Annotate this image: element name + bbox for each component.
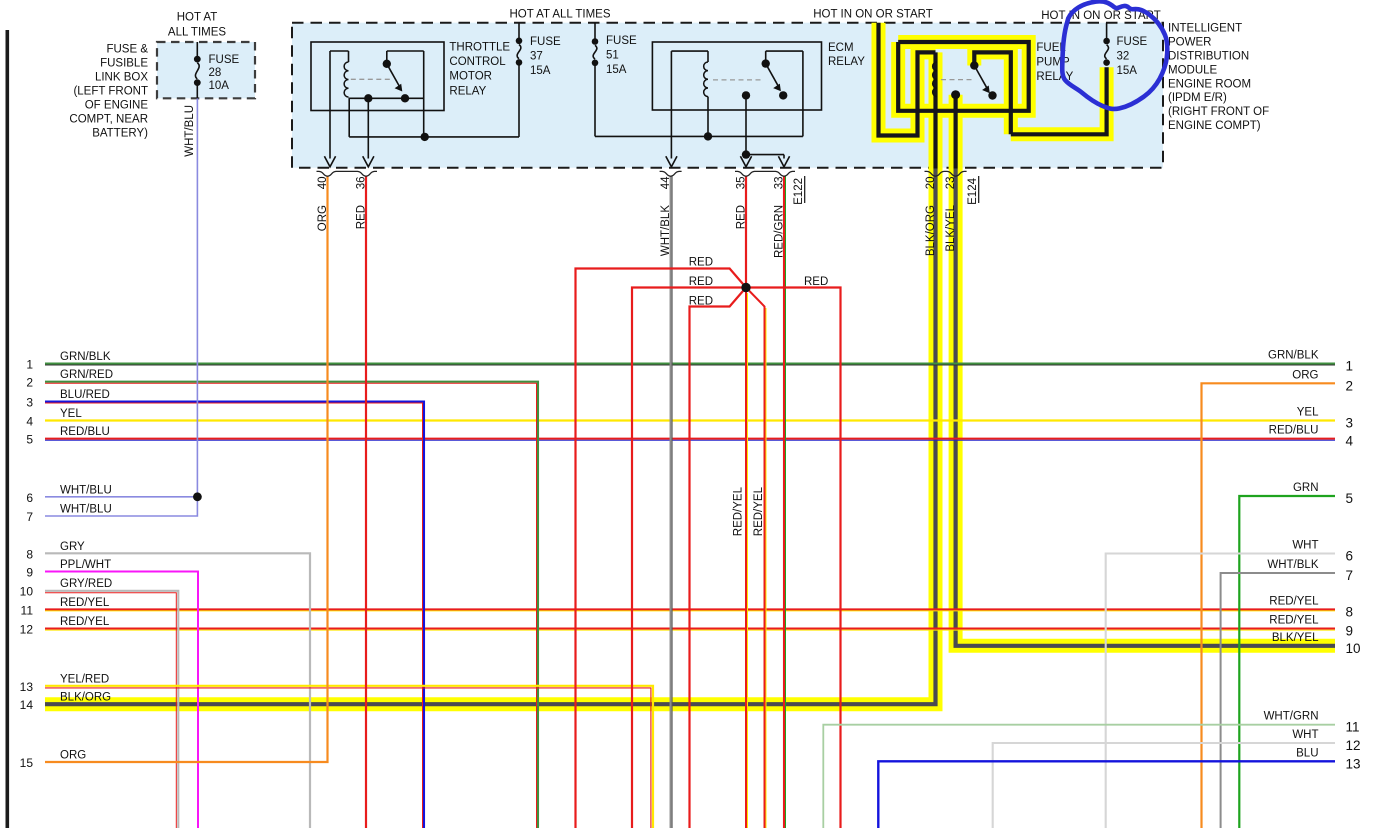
svg-text:RELAY: RELAY bbox=[828, 56, 865, 68]
svg-text:GRN/BLK: GRN/BLK bbox=[60, 351, 111, 363]
svg-text:40: 40 bbox=[317, 177, 329, 190]
svg-text:13: 13 bbox=[1346, 756, 1361, 771]
svg-text:(IPDM E/R): (IPDM E/R) bbox=[1168, 92, 1227, 104]
svg-text:BLK/ORG: BLK/ORG bbox=[60, 692, 111, 704]
svg-text:LINK BOX: LINK BOX bbox=[95, 71, 148, 83]
svg-text:RED: RED bbox=[689, 295, 713, 307]
svg-text:WHT: WHT bbox=[1292, 729, 1318, 741]
svg-text:RED/YEL: RED/YEL bbox=[1269, 615, 1319, 627]
svg-text:BLU/RED: BLU/RED bbox=[60, 389, 110, 401]
svg-text:RED: RED bbox=[804, 276, 828, 288]
svg-text:GRN: GRN bbox=[1293, 482, 1319, 494]
svg-text:3: 3 bbox=[1346, 416, 1354, 431]
svg-text:RED/YEL: RED/YEL bbox=[1269, 595, 1319, 607]
svg-text:RED/BLU: RED/BLU bbox=[60, 426, 110, 438]
svg-text:FUSIBLE: FUSIBLE bbox=[100, 57, 148, 69]
svg-text:DISTRIBUTION: DISTRIBUTION bbox=[1168, 51, 1249, 63]
svg-text:15A: 15A bbox=[606, 64, 627, 76]
svg-text:BLK/ORG: BLK/ORG bbox=[925, 205, 937, 256]
svg-text:ENGINE ROOM: ENGINE ROOM bbox=[1168, 78, 1251, 90]
svg-text:6: 6 bbox=[1346, 549, 1354, 564]
svg-text:11: 11 bbox=[1346, 720, 1360, 735]
svg-text:BATTERY): BATTERY) bbox=[92, 127, 148, 139]
svg-text:OF ENGINE: OF ENGINE bbox=[85, 99, 149, 111]
svg-text:E122: E122 bbox=[793, 178, 805, 205]
svg-text:BLK/YEL: BLK/YEL bbox=[945, 204, 957, 251]
svg-text:HOT IN ON OR START: HOT IN ON OR START bbox=[813, 9, 932, 21]
svg-text:15A: 15A bbox=[1117, 65, 1138, 77]
svg-text:ORG: ORG bbox=[317, 205, 329, 231]
svg-text:35: 35 bbox=[736, 177, 748, 190]
svg-text:PUMP: PUMP bbox=[1036, 57, 1070, 69]
svg-text:7: 7 bbox=[26, 510, 33, 524]
svg-text:ORG: ORG bbox=[60, 750, 86, 762]
svg-text:WHT/BLK: WHT/BLK bbox=[660, 205, 672, 256]
svg-text:36: 36 bbox=[356, 177, 368, 190]
svg-text:YEL: YEL bbox=[60, 408, 82, 420]
svg-text:32: 32 bbox=[1117, 51, 1130, 63]
svg-text:POWER: POWER bbox=[1168, 37, 1211, 49]
svg-text:WHT/BLU: WHT/BLU bbox=[60, 484, 112, 496]
svg-text:15: 15 bbox=[20, 756, 34, 770]
svg-text:20: 20 bbox=[925, 177, 937, 190]
svg-text:37: 37 bbox=[530, 51, 543, 63]
svg-text:51: 51 bbox=[606, 50, 619, 62]
svg-text:YEL/RED: YEL/RED bbox=[60, 673, 109, 685]
svg-text:ORG: ORG bbox=[1292, 369, 1318, 381]
svg-text:MODULE: MODULE bbox=[1168, 64, 1218, 76]
svg-text:14: 14 bbox=[20, 698, 34, 712]
svg-text:4: 4 bbox=[1346, 434, 1354, 449]
svg-text:4: 4 bbox=[26, 415, 33, 429]
svg-text:RED: RED bbox=[689, 276, 713, 288]
svg-text:5: 5 bbox=[26, 433, 33, 447]
svg-text:BLK/YEL: BLK/YEL bbox=[1272, 632, 1319, 644]
svg-text:CONTROL: CONTROL bbox=[449, 56, 506, 68]
svg-text:15A: 15A bbox=[530, 65, 551, 77]
svg-text:HOT AT ALL TIMES: HOT AT ALL TIMES bbox=[510, 9, 611, 21]
svg-text:FUSE: FUSE bbox=[530, 36, 561, 48]
svg-text:13: 13 bbox=[20, 680, 34, 694]
svg-text:9: 9 bbox=[1346, 624, 1354, 639]
svg-text:FUSE: FUSE bbox=[1117, 36, 1148, 48]
svg-text:ECM: ECM bbox=[828, 42, 854, 54]
svg-text:RED/YEL: RED/YEL bbox=[60, 597, 110, 609]
svg-text:GRN/BLK: GRN/BLK bbox=[1268, 350, 1319, 362]
svg-text:11: 11 bbox=[21, 603, 34, 617]
svg-text:10A: 10A bbox=[209, 80, 230, 92]
svg-text:6: 6 bbox=[26, 491, 33, 505]
svg-text:BLU: BLU bbox=[1296, 747, 1318, 759]
svg-text:WHT: WHT bbox=[1292, 540, 1318, 552]
svg-text:12: 12 bbox=[20, 623, 34, 637]
svg-text:YEL: YEL bbox=[1297, 407, 1319, 419]
svg-text:RED/YEL: RED/YEL bbox=[753, 486, 765, 536]
svg-text:MOTOR: MOTOR bbox=[449, 71, 492, 83]
svg-text:FUSE: FUSE bbox=[209, 54, 240, 66]
svg-text:GRY: GRY bbox=[60, 541, 85, 553]
svg-text:5: 5 bbox=[1346, 491, 1354, 506]
svg-text:33: 33 bbox=[774, 177, 786, 190]
svg-text:44: 44 bbox=[660, 176, 672, 189]
svg-text:9: 9 bbox=[26, 566, 33, 580]
svg-text:GRY/RED: GRY/RED bbox=[60, 578, 112, 590]
svg-text:PPL/WHT: PPL/WHT bbox=[60, 559, 111, 571]
svg-text:HOT AT: HOT AT bbox=[177, 12, 217, 24]
svg-text:12: 12 bbox=[1346, 738, 1361, 753]
svg-text:WHT/BLK: WHT/BLK bbox=[1267, 559, 1318, 571]
svg-text:(LEFT FRONT: (LEFT FRONT bbox=[73, 85, 148, 97]
svg-text:FUSE &: FUSE & bbox=[106, 43, 148, 55]
svg-text:RED: RED bbox=[356, 205, 368, 229]
svg-text:RED/YEL: RED/YEL bbox=[733, 486, 745, 536]
svg-text:(RIGHT FRONT OF: (RIGHT FRONT OF bbox=[1168, 106, 1269, 118]
svg-text:RED/GRN: RED/GRN bbox=[774, 205, 786, 258]
svg-text:RED/BLU: RED/BLU bbox=[1269, 425, 1319, 437]
svg-text:COMPT, NEAR: COMPT, NEAR bbox=[69, 113, 148, 125]
svg-text:E124: E124 bbox=[967, 177, 979, 204]
svg-text:8: 8 bbox=[1346, 604, 1354, 619]
svg-text:WHT/BLU: WHT/BLU bbox=[60, 504, 112, 516]
svg-text:GRN/RED: GRN/RED bbox=[60, 369, 113, 381]
svg-text:RELAY: RELAY bbox=[449, 85, 486, 97]
svg-text:RED: RED bbox=[689, 257, 713, 269]
svg-text:10: 10 bbox=[1346, 641, 1361, 656]
svg-text:28: 28 bbox=[209, 67, 222, 79]
svg-text:1: 1 bbox=[1346, 359, 1354, 374]
svg-text:2: 2 bbox=[1346, 378, 1354, 393]
svg-text:INTELLIGENT: INTELLIGENT bbox=[1168, 23, 1242, 35]
svg-text:WHT/GRN: WHT/GRN bbox=[1264, 711, 1319, 723]
svg-text:ALL TIMES: ALL TIMES bbox=[168, 27, 226, 39]
svg-text:7: 7 bbox=[1346, 568, 1354, 583]
svg-text:8: 8 bbox=[26, 547, 33, 561]
svg-text:THROTTLE: THROTTLE bbox=[449, 42, 510, 54]
svg-text:WHT/BLU: WHT/BLU bbox=[184, 105, 196, 157]
svg-text:3: 3 bbox=[26, 396, 33, 410]
svg-text:RED/YEL: RED/YEL bbox=[60, 616, 110, 628]
svg-text:1: 1 bbox=[26, 358, 33, 372]
svg-text:10: 10 bbox=[20, 584, 34, 598]
svg-text:RED: RED bbox=[736, 205, 748, 229]
svg-text:23: 23 bbox=[945, 177, 957, 190]
svg-text:ENGINE COMPT): ENGINE COMPT) bbox=[1168, 120, 1261, 132]
svg-text:FUSE: FUSE bbox=[606, 35, 637, 47]
svg-text:2: 2 bbox=[26, 376, 33, 390]
